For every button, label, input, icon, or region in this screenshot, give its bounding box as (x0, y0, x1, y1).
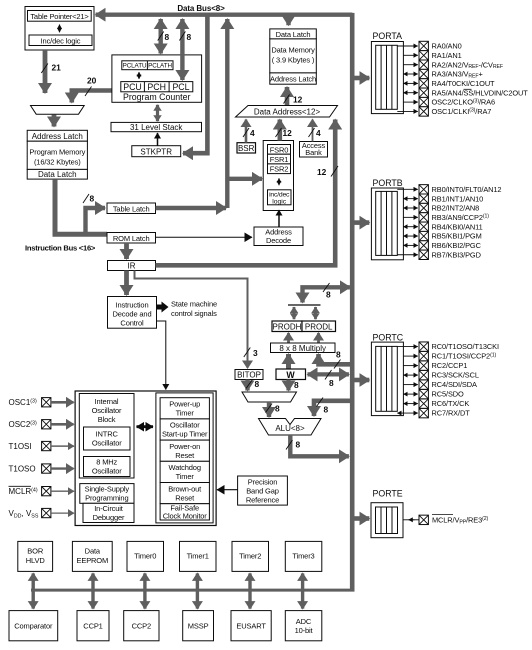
block INTRC Oscillator (84, 427, 131, 450)
register BSR (237, 143, 256, 153)
svg-text:4: 4 (250, 128, 255, 138)
svg-text:RC5/SDO: RC5/SDO (432, 390, 465, 399)
wire Timer0 to peripheral bus (143, 573, 146, 608)
label 8 slash (prod bus) (323, 283, 330, 292)
wire bus to PROD latch bar (303, 287, 350, 302)
block Single-Supply Programming (80, 484, 134, 504)
pin RB4/KBI0/AN11 (403, 222, 482, 231)
block Program Counter outer (112, 55, 202, 102)
svg-text:8: 8 (324, 405, 329, 415)
label 20 with slash (85, 87, 92, 97)
label 4 slash (bsr) (243, 128, 249, 137)
svg-text:Timer3: Timer3 (292, 552, 314, 561)
pin OSC1(3) (9, 398, 74, 407)
svg-text:31 Level Stack: 31 Level Stack (130, 123, 183, 132)
wire BSR to data address 4 (245, 120, 248, 143)
block CCP2 (124, 611, 159, 641)
svg-text:Control: Control (120, 319, 144, 328)
block Timer3 (285, 541, 322, 571)
svg-text:Watchdog: Watchdog (169, 463, 201, 472)
svg-text:(16/32 Kbytes): (16/32 Kbytes) (34, 158, 81, 167)
wire writeback branch to FSR block (227, 177, 262, 181)
block EUSART (231, 611, 271, 641)
svg-text:RA4/T0CKI/C1OUT: RA4/T0CKI/C1OUT (432, 79, 496, 88)
block Address Decode (254, 227, 303, 246)
wire bus to PCL 8-bit (180, 19, 184, 80)
wire bus writeback vertical (table latch join) (225, 19, 229, 208)
node PROD bar (288, 304, 321, 306)
wire IR to BITOP 3 (135, 271, 248, 369)
pin RC3/SCK/SCL (403, 370, 478, 379)
pin OSC1/CLKI(3)/RA7 (397, 107, 491, 116)
wire address decode to inc/dec logic (278, 210, 280, 227)
wire 21-bit address to mux (43, 50, 48, 93)
block inc/dec logic (FSR) (268, 190, 292, 205)
svg-text:12: 12 (293, 95, 303, 105)
block Watchdog Timer (160, 461, 209, 482)
wire bus to PORTE (355, 516, 370, 521)
svg-text:RB1/INT1/AN10: RB1/INT1/AN10 (432, 194, 484, 203)
wire data address to address latch 12 (285, 87, 290, 105)
wire multiply to PRODH (287, 333, 290, 343)
block 8 MHz Oscillator (84, 457, 131, 477)
wire main vertical data bus right (350, 13, 355, 590)
block oscillator and reset outer (75, 391, 216, 526)
svg-text:Oscillator: Oscillator (170, 421, 200, 430)
svg-text:OSC1/CLKI(3)/RA7: OSC1/CLKI(3)/RA7 (432, 107, 492, 116)
svg-text:Timer0: Timer0 (134, 552, 156, 561)
svg-text:Timer: Timer (176, 409, 195, 418)
svg-text:Reset: Reset (175, 493, 195, 502)
svg-text:PORTB: PORTB (373, 178, 403, 188)
svg-text:PCLATH: PCLATH (148, 63, 172, 70)
svg-text:BOR: BOR (27, 547, 44, 556)
pin RB7/KBI3/PGD (397, 250, 481, 259)
wire W to alu mux 8 (286, 380, 290, 391)
svg-text:RA5/AN4/SS/HLVDIN/C2OUT: RA5/AN4/SS/HLVDIN/C2OUT (432, 88, 529, 97)
pin RC6/TX/CK (403, 399, 469, 408)
svg-text:FSR2: FSR2 (270, 165, 289, 174)
svg-text:Data Latch: Data Latch (276, 30, 311, 39)
label 12 slash (fsr) (276, 128, 282, 137)
wire table latch to writeback line (156, 206, 227, 210)
svg-text:8: 8 (294, 380, 299, 390)
wire BITOP to alu mux 8 (245, 380, 249, 391)
block Timer0 (127, 541, 164, 571)
pin RA5/AN4/SS/HLVDIN/C2OUT (403, 88, 528, 97)
block Oscillator Start-up Timer (160, 419, 209, 440)
svg-text:Data Address<12>: Data Address<12> (254, 107, 321, 116)
wire branch to table latch with 8 (86, 208, 106, 234)
wire Data EEPROM to peripheral bus (91, 573, 94, 608)
label 4 slash (access bank) (309, 128, 315, 137)
pin RB1/INT1/AN10 (403, 194, 483, 203)
pin OSC2/CLKO(3)/RA6 (403, 97, 495, 106)
block MSSP (183, 611, 214, 641)
svg-text:State machine: State machine (171, 300, 217, 309)
pin RC0/T1OSO/T13CKI (397, 342, 499, 351)
svg-text:Brown-out: Brown-out (168, 484, 202, 493)
svg-text:PCH: PCH (147, 82, 166, 92)
block Internal Oscillator Block (79, 394, 134, 479)
svg-text:PCL: PCL (172, 82, 189, 92)
svg-text:CCP2: CCP2 (132, 622, 151, 631)
svg-text:RB4/KBI0/AN11: RB4/KBI0/AN11 (432, 222, 483, 231)
svg-text:RC3/SCK/SCL: RC3/SCK/SCL (432, 371, 479, 380)
pin RA1/AN1 (403, 51, 461, 60)
block Timer1 (180, 541, 217, 571)
svg-text:inc/dec: inc/dec (269, 191, 290, 198)
pin RA0/AN0 (397, 41, 461, 50)
pin RB6/KBI2/PGC (403, 241, 481, 250)
label 21 with slash (41, 64, 48, 74)
block CCP1 (77, 611, 109, 641)
pin OSC2(3) (9, 420, 74, 429)
wire access bank to data address 4 (312, 120, 314, 142)
svg-text:Reference: Reference (246, 496, 279, 505)
svg-text:21: 21 (52, 63, 62, 73)
block 31 Level Stack (111, 122, 202, 131)
wire bus to PORTA (355, 76, 370, 81)
pin RC7/RX/DT (397, 408, 470, 417)
svg-text:Oscillator: Oscillator (92, 467, 122, 476)
svg-text:CCP1: CCP1 (83, 622, 102, 631)
svg-text:PCLATU: PCLATU (123, 63, 147, 70)
pin RC4/SDI/SDA (403, 380, 477, 389)
svg-text:8: 8 (187, 32, 192, 42)
wire instruction decode to oscillator block (157, 321, 166, 390)
block Timer2 (232, 541, 269, 571)
svg-text:Debugger: Debugger (93, 513, 125, 522)
pin T1OSO (9, 464, 74, 474)
pin RA2/AN2/VREF-/CVREF (403, 60, 503, 70)
svg-text:BSR: BSR (238, 144, 255, 153)
svg-text:STKPTR: STKPTR (140, 147, 172, 156)
svg-text:Start-up Timer: Start-up Timer (162, 430, 208, 439)
wire Timer1 to peripheral bus (196, 573, 199, 608)
wire Timer3 to peripheral bus (301, 573, 304, 608)
svg-text:MSSP: MSSP (188, 622, 209, 631)
svg-text:RB7/KBI3/PGD: RB7/KBI3/PGD (432, 250, 481, 259)
block Address Latch (program memory) (27, 130, 87, 141)
svg-text:RC0/T1OSO/T13CKI: RC0/T1OSO/T13CKI (432, 342, 499, 351)
svg-text:12: 12 (283, 128, 293, 138)
register Table Pointer<21> (28, 11, 92, 22)
wire bus to ALU 8 (314, 401, 352, 416)
svg-text:IR: IR (128, 261, 136, 270)
svg-text:OSC2/CLKO(3)/RA6: OSC2/CLKO(3)/RA6 (432, 98, 495, 107)
wire bar to PRODL updown (314, 307, 317, 319)
label 8 slash (pcl) (179, 32, 185, 41)
svg-text:Timer1: Timer1 (187, 552, 209, 561)
svg-text:8 MHz: 8 MHz (96, 458, 117, 467)
svg-text:PCU: PCU (123, 82, 142, 92)
wire bar to PRODH updown (293, 307, 296, 319)
label 8 slash (pclath) (158, 32, 164, 41)
block Data EEPROM (72, 541, 112, 571)
label 8 slash (table latch) (83, 194, 89, 203)
label 8 slash (alu out) (286, 440, 293, 450)
svg-text:RA0/AN0: RA0/AN0 (432, 42, 462, 51)
arrow state machine control signals (157, 302, 169, 313)
svg-text:Address Latch: Address Latch (270, 75, 316, 84)
pin MCLR/VPP/RE3(2) (403, 515, 489, 526)
label 8 slash (bus alu) (317, 398, 324, 407)
mux Data Address<12> (236, 106, 338, 118)
svg-text:Timer2: Timer2 (239, 552, 261, 561)
svg-text:Data Latch: Data Latch (38, 170, 77, 179)
wire program data latch to instruction bus (55, 179, 107, 234)
block Address Latch (data memory) (270, 73, 317, 84)
wire IR literal to data address 12 (156, 120, 336, 266)
pin VDD VSS (9, 508, 75, 519)
label 8 slash (mux alu) (266, 404, 273, 413)
svg-text:8: 8 (336, 350, 341, 360)
svg-text:RC1/T1OSI/CCP2(1): RC1/T1OSI/CCP2(1) (432, 352, 497, 361)
mux ALU input (242, 392, 297, 402)
block FSR group outer (263, 141, 293, 211)
svg-text:control signals: control signals (171, 309, 217, 318)
pin RC5/SDO (403, 389, 464, 398)
wire mux to ALU 8 (267, 402, 271, 417)
block Fail-Safe Clock Monitor (160, 504, 209, 520)
svg-text:Band Gap: Band Gap (246, 487, 279, 496)
svg-text:Data: Data (85, 547, 101, 556)
pin RB3/AN9/CCP2(1) (403, 213, 489, 222)
svg-text:Block: Block (98, 415, 116, 424)
block Precision Band Gap Reference (238, 476, 288, 505)
pin MCLR(4) (9, 486, 75, 496)
svg-text:4: 4 (316, 128, 321, 138)
block Data Memory (3.9 Kbytes) (270, 39, 317, 73)
block Access Bank (300, 142, 328, 158)
wire data bus horizontal top (96, 12, 353, 16)
block In-Circuit Debugger (83, 503, 134, 522)
port PORTB box (371, 178, 403, 260)
block ADC 10-bit (285, 611, 322, 641)
svg-text:Program Counter: Program Counter (123, 92, 191, 102)
port PORTE box (371, 489, 403, 538)
wire PC to stack updown (156, 105, 159, 121)
svg-text:Data Bus<8>: Data Bus<8> (177, 4, 225, 13)
wire FSR to inc/dec updown (278, 178, 280, 185)
block Data Latch (data memory) (270, 29, 317, 39)
svg-text:20: 20 (87, 76, 97, 86)
port PORTA box (371, 31, 403, 114)
svg-text:Instruction: Instruction (116, 301, 149, 310)
wire table pointer updown arrow (59, 25, 61, 33)
mux program memory address (31, 106, 85, 115)
block reset column outer (156, 393, 213, 523)
svg-text:Bank: Bank (305, 148, 322, 157)
svg-text:8: 8 (296, 440, 301, 450)
wire mux to address latch (52, 115, 57, 127)
block Table Pointer outer (25, 7, 94, 51)
block Program Memory (16/32 Kbytes) (27, 141, 87, 169)
register PRODH (272, 321, 302, 332)
svg-text:Instruction Bus <16>: Instruction Bus <16> (25, 244, 96, 253)
wire peripheral bus bottom (31, 589, 355, 592)
wire bus down to STKPTR (183, 16, 207, 153)
svg-text:Reset: Reset (175, 451, 195, 460)
svg-text:8 x 8 Multiply: 8 x 8 Multiply (279, 344, 326, 353)
svg-text:3: 3 (253, 348, 258, 358)
register STKPTR (132, 146, 181, 157)
svg-text:PORTA: PORTA (373, 31, 403, 41)
block Brown-out Reset (160, 483, 209, 504)
register PCLATU PCLATH (122, 61, 173, 70)
svg-text:Comparator: Comparator (14, 622, 53, 631)
svg-text:Internal: Internal (95, 397, 119, 406)
label 3 slash (bitop) (244, 348, 251, 358)
svg-text:Data Memory: Data Memory (271, 45, 315, 54)
svg-text:12: 12 (317, 167, 327, 177)
wire oscillator to reset column double arrow (137, 425, 154, 428)
svg-text:FSR0: FSR0 (270, 145, 289, 154)
wire multiply to PRODL (317, 333, 320, 343)
svg-text:FSR1: FSR1 (270, 155, 289, 164)
svg-text:PRODH: PRODH (273, 323, 302, 332)
svg-text:logic: logic (272, 198, 287, 205)
svg-text:RA1/AN1: RA1/AN1 (432, 51, 462, 60)
label 8 slash (bitop out) (246, 380, 253, 389)
wire bus to data latch (286, 17, 290, 25)
wire FSR to data address 12 (277, 120, 282, 141)
svg-text:Oscillator: Oscillator (92, 439, 122, 448)
svg-text:RB2/INT2/AN8: RB2/INT2/AN8 (432, 204, 480, 213)
block 8 x 8 Multiply (271, 343, 336, 353)
wire bus to multiply 8 (319, 354, 353, 364)
wire bus to PORTB (355, 220, 370, 225)
svg-text:Inc/dec logic: Inc/dec logic (41, 36, 81, 45)
pin T1OSI (9, 441, 75, 451)
svg-text:RC6/TX/CK: RC6/TX/CK (432, 399, 470, 408)
alu ALU<8> (259, 419, 322, 436)
wire IR to instruction decode (124, 271, 129, 296)
svg-text:Decode: Decode (266, 236, 291, 245)
svg-text:8: 8 (326, 290, 331, 300)
register PCU PCH PCL (121, 82, 193, 92)
block BITOP (235, 370, 263, 380)
block inc/dec logic (table pointer) (29, 35, 92, 46)
register FSR2 (268, 164, 291, 174)
svg-text:ALU<8>: ALU<8> (275, 424, 305, 433)
svg-text:Clock Monitor: Clock Monitor (163, 511, 208, 520)
svg-text:PORTC: PORTC (373, 332, 404, 342)
svg-text:Table Latch: Table Latch (113, 204, 150, 213)
block BOR HLVD (18, 541, 53, 571)
svg-text:Timer: Timer (176, 472, 195, 481)
svg-text:RB6/KBI2/PGC: RB6/KBI2/PGC (432, 241, 482, 250)
pin RB5/KBI1/PGM (403, 231, 481, 240)
svg-text:INTRC: INTRC (96, 430, 119, 439)
svg-text:RC7/RX/DT: RC7/RX/DT (432, 409, 471, 418)
wire ROM latch to IR (124, 243, 129, 259)
svg-text:Precision: Precision (248, 478, 278, 487)
svg-text:Single-Supply: Single-Supply (85, 485, 130, 494)
wire W to multiply (286, 354, 291, 369)
wire Timer2 to peripheral bus (248, 573, 251, 608)
svg-text:Table Pointer<21>: Table Pointer<21> (30, 12, 89, 21)
svg-text:EEPROM: EEPROM (76, 556, 108, 565)
wire W to bus 8 bidirectional (308, 372, 349, 376)
block Power-on Reset (160, 440, 209, 461)
register FSR0 (268, 145, 291, 155)
svg-text:10-bit: 10-bit (295, 626, 314, 635)
port PORTC box (371, 332, 403, 415)
label 8 slash (multiply) (334, 360, 341, 369)
svg-text:8: 8 (255, 379, 260, 389)
svg-text:Oscillator: Oscillator (92, 406, 122, 415)
block Power-up Timer (160, 398, 209, 419)
label 12 slash (address latch) (284, 95, 290, 104)
svg-text:8: 8 (90, 194, 95, 204)
svg-text:Decode and: Decode and (113, 310, 152, 319)
pin RA4/T0CKI/C1OUT (403, 79, 495, 88)
svg-text:T1OSO: T1OSO (9, 465, 36, 474)
svg-text:ADC: ADC (296, 617, 312, 626)
svg-text:RC4/SDI/SDA: RC4/SDI/SDA (432, 380, 477, 389)
svg-text:8: 8 (329, 378, 334, 388)
wire STKPTR to stack (157, 133, 159, 146)
svg-text:ROM Latch: ROM Latch (113, 234, 150, 243)
svg-text:RC2/CCP1: RC2/CCP1 (432, 361, 468, 370)
block Data Latch (program memory) (27, 169, 87, 179)
svg-text:PRODL: PRODL (305, 323, 333, 332)
wire BOR to peripheral bus (32, 573, 35, 608)
wire bus to PCLATH 8-bit (158, 19, 162, 54)
register PRODL (302, 321, 336, 332)
label 12 slash (literal) (331, 166, 338, 177)
svg-text:RB3/AN9/CCP2(1): RB3/AN9/CCP2(1) (432, 213, 490, 222)
wire ROM latch to address decode (156, 236, 253, 238)
svg-text:RB0/INT0/FLT0/AN12: RB0/INT0/FLT0/AN12 (432, 185, 502, 194)
pin RC2/CCP1 (403, 361, 467, 370)
svg-text:RB5/KBI1/PGM: RB5/KBI1/PGM (432, 232, 482, 241)
block Instruction Decode and Control (108, 297, 157, 329)
svg-text:PORTE: PORTE (373, 489, 403, 499)
wire 20-bit PC to mux (72, 91, 112, 103)
svg-text:T1OSI: T1OSI (9, 442, 32, 451)
wire bus to PORTC (355, 378, 370, 383)
svg-text:W: W (286, 370, 295, 380)
pin RB0/INT0/FLT0/AN12 (397, 185, 501, 194)
svg-text:Programming: Programming (85, 494, 128, 503)
svg-text:( 3.9 Kbytes ): ( 3.9 Kbytes ) (272, 55, 315, 64)
pin RC1/T1OSI/CCP2(1) (403, 351, 496, 360)
svg-text:EUSART: EUSART (236, 622, 266, 631)
block ROM Latch (107, 233, 156, 244)
pin RB2/INT2/AN8 (403, 203, 479, 212)
wire pclat updown arrow (138, 72, 140, 79)
svg-text:Power-on: Power-on (169, 442, 200, 451)
label 8 slash (w bus) (325, 370, 332, 380)
svg-text:Power-up: Power-up (169, 400, 200, 409)
register FSR1 (268, 154, 291, 164)
pin RA3/AN3/VREF+ (403, 69, 482, 79)
svg-text:Program Memory: Program Memory (29, 148, 85, 157)
svg-text:8: 8 (275, 404, 280, 414)
wire ALU to bus 8 (290, 435, 349, 456)
svg-text:Address Latch: Address Latch (32, 132, 83, 141)
block Comparator (9, 611, 58, 641)
svg-text:8: 8 (165, 32, 170, 42)
block Table Latch (107, 203, 156, 214)
wire band gap to brown-out reset (217, 489, 238, 491)
svg-text:HLVD: HLVD (26, 556, 46, 565)
svg-text:In-Circuit: In-Circuit (94, 504, 124, 513)
register IR (108, 261, 156, 271)
